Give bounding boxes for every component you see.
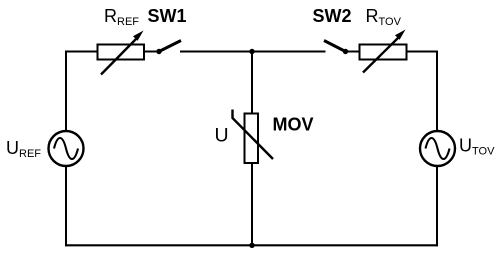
switch SW2 pivot dot xyxy=(343,49,348,54)
svg-text:MOV: MOV xyxy=(273,115,314,135)
wire: U_REF down to bottom wire xyxy=(65,166,67,246)
resistor R_TOV (variable) body xyxy=(360,45,407,60)
switch SW2 lever xyxy=(324,41,346,52)
wire: MOV down to bottom wire xyxy=(251,163,253,245)
svg-text:SW1: SW1 xyxy=(148,6,187,26)
switch SW1 pivot dot xyxy=(156,49,161,54)
svg-text:RTOV: RTOV xyxy=(366,6,402,28)
svg-text:SW2: SW2 xyxy=(313,6,352,26)
resistor R_REF arrow xyxy=(101,31,144,75)
resistor R_TOV arrow xyxy=(363,30,406,73)
source U_REF circle xyxy=(49,131,84,166)
wire: bottom rail xyxy=(65,244,438,246)
wire: SW1 fixed contact to node A and on to SW2 xyxy=(180,51,326,53)
source U_TOV circle xyxy=(420,131,455,166)
svg-text:UTOV: UTOV xyxy=(459,136,495,158)
wire: R_REF to SW1 pivot xyxy=(144,51,159,53)
svg-text:RREF: RREF xyxy=(104,6,139,28)
wire: left branch top (vertical up + top wire to R_REF) xyxy=(66,52,98,132)
source U_TOV sine xyxy=(426,138,450,159)
svg-text:U: U xyxy=(215,125,229,147)
wire: SW2 pivot to R_TOV xyxy=(346,51,360,53)
varistor MOV body xyxy=(245,114,259,164)
wire: R_TOV to right branch (top wire + vertical down) xyxy=(407,52,438,132)
node B junction dot (bottom middle) xyxy=(249,243,254,248)
resistor R_REF (variable) body xyxy=(98,45,145,60)
varistor MOV diagonal with tail xyxy=(233,110,274,160)
switch SW1 lever xyxy=(159,41,181,52)
source U_REF sine xyxy=(54,138,78,159)
wire: node A down to MOV xyxy=(251,52,253,115)
node A junction dot (top middle) xyxy=(249,49,254,54)
wire: U_TOV down to bottom wire xyxy=(436,166,438,246)
svg-text:UREF: UREF xyxy=(6,138,41,160)
